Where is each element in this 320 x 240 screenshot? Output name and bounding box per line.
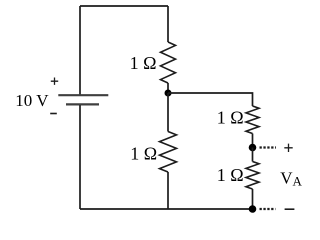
VA minus polarity mark: [285, 208, 295, 210]
resistor R4 1 ohm (right branch lower): [246, 162, 259, 190]
resistor R3 1 ohm (right branch upper): [246, 106, 259, 134]
resistor R1 1 ohm (top middle): [161, 42, 176, 83]
node A junction dot (VA + terminal): [249, 144, 257, 152]
svg-text:1 Ω: 1 Ω: [217, 108, 244, 128]
wire top from battery to middle branch: [80, 5, 168, 7]
wire bottom rail: [80, 208, 253, 210]
wire R3 to node A: [252, 134, 254, 148]
dotted probe lead at node A: [260, 146, 277, 148]
VA plus polarity mark: [284, 144, 292, 152]
svg-text:1 Ω: 1 Ω: [130, 53, 157, 73]
node junction dot middle: [165, 90, 172, 97]
wire left rail lower (battery - to bottom): [79, 105, 81, 209]
svg-text:1 Ω: 1 Ω: [130, 143, 157, 163]
svg-text:1 Ω: 1 Ω: [217, 165, 244, 185]
wire left rail upper (battery + to top): [79, 6, 81, 95]
wire R4 to bottom node: [252, 189, 254, 209]
battery minus polarity mark: [50, 113, 57, 115]
wire node to right branch: [168, 93, 253, 106]
battery plus polarity mark: [51, 78, 58, 85]
voltage source V1 short plate (-): [66, 103, 99, 105]
voltage source V1 long plate (+): [58, 94, 108, 96]
svg-text:VA: VA: [280, 169, 302, 189]
wire R1 bottom lead to node: [167, 83, 169, 93]
svg-text:10 V: 10 V: [15, 91, 49, 110]
node junction dot bottom (VA - terminal): [249, 205, 257, 213]
resistor R2 1 ohm (middle branch lower): [160, 132, 177, 173]
wire middle branch top lead: [167, 6, 169, 42]
wire R2 bottom lead to bottom rail: [167, 172, 169, 209]
dotted probe lead at bottom node: [260, 208, 276, 210]
wire middle branch between node and R2: [167, 93, 169, 132]
wire node A to R4: [252, 148, 254, 162]
